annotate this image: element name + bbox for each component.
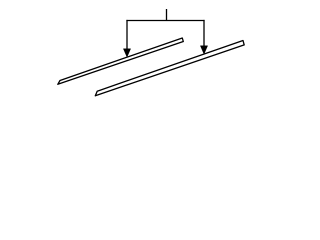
left arrowhead (123, 49, 130, 57)
upper strip (slanted bar 1) (58, 38, 184, 84)
bracket tick (top center) (166, 9, 168, 21)
left arrow shaft (126, 20, 128, 50)
bracket horizontal line (126, 20, 204, 22)
right arrowhead (200, 46, 207, 54)
right arrow shaft (203, 20, 205, 47)
lower strip (slanted bar 2) (95, 41, 244, 96)
